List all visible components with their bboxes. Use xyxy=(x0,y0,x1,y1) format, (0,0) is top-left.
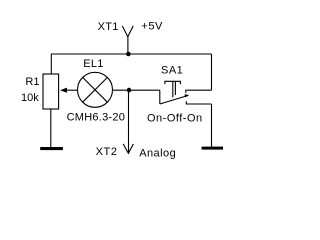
svg-text:XT1: XT1 xyxy=(98,21,119,33)
lamp EL1 CMH6.3-20 xyxy=(78,72,113,107)
svg-text:R1: R1 xyxy=(25,76,39,88)
connector XT1 xyxy=(122,26,133,54)
wire right vertical rail to SA1 upper contact xyxy=(211,54,213,90)
junction dot Analog node xyxy=(127,88,132,93)
wiper arrow of R1 xyxy=(60,88,78,93)
resistor R1 10k potentiometer body xyxy=(43,74,59,109)
wire lamp to switch (Analog node) xyxy=(113,89,160,91)
SA1 lever xyxy=(160,96,188,105)
svg-text:On-Off-On: On-Off-On xyxy=(147,112,203,124)
switch SA1 On-Off-On xyxy=(160,81,212,104)
svg-text:CMH6.3-20: CMH6.3-20 xyxy=(67,112,126,124)
svg-text:EL1: EL1 xyxy=(83,58,103,70)
wire R1 bottom to ground xyxy=(50,109,52,147)
SA1 actuator bar xyxy=(165,81,181,84)
svg-text:SA1: SA1 xyxy=(161,64,183,76)
connector XT2 xyxy=(123,144,133,153)
svg-text:10k: 10k xyxy=(21,92,39,104)
svg-text:+5V: +5V xyxy=(141,21,163,33)
SA1 lower fixed contact xyxy=(186,101,211,104)
svg-text:Analog: Analog xyxy=(139,147,176,159)
ground right xyxy=(202,147,223,150)
wire Analog node down to XT2 xyxy=(128,90,130,153)
wire top +5V rail xyxy=(51,53,212,55)
SA1 actuator prong right xyxy=(174,81,176,95)
wire left vertical from rail to R1 xyxy=(50,54,52,74)
junction dot XT1 on +5V rail xyxy=(126,52,131,57)
SA1 actuator prong left xyxy=(172,81,174,97)
ground left xyxy=(40,147,63,150)
svg-text:XT2: XT2 xyxy=(96,146,118,158)
wire SA1 lower contact to ground xyxy=(211,104,213,147)
SA1 pole drop xyxy=(159,90,161,104)
SA1 upper fixed contact xyxy=(186,90,212,93)
SA1 lever tip arrowhead xyxy=(185,94,190,97)
